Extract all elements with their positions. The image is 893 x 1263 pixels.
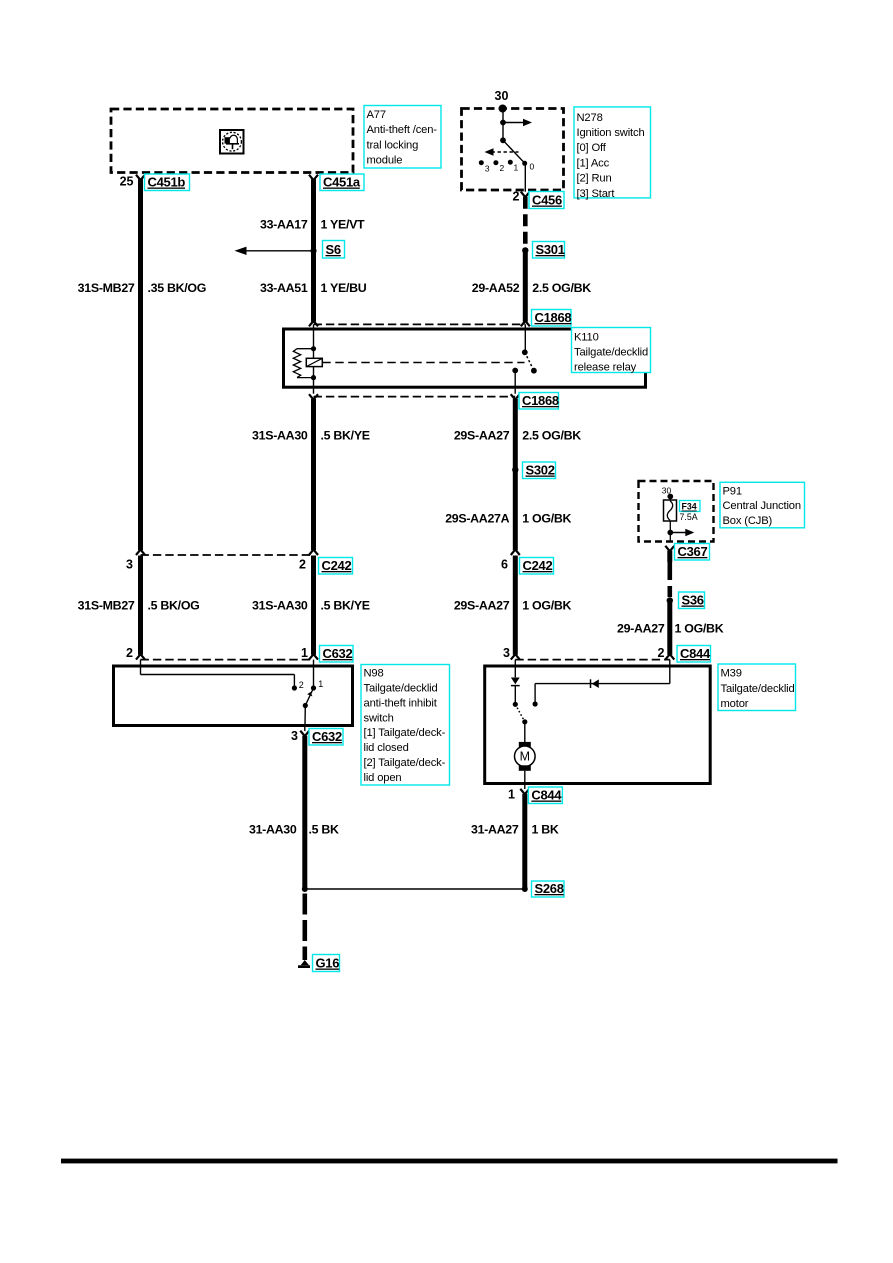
svg-text:33-AA17: 33-AA17 bbox=[260, 218, 308, 232]
svg-text:Tailgate/decklid: Tailgate/decklid bbox=[721, 683, 795, 695]
N98 contact 2 bbox=[292, 680, 304, 691]
connector C242 pin 3 symbol bbox=[126, 550, 145, 572]
svg-text:29-AA27: 29-AA27 bbox=[617, 621, 665, 635]
ignition switch movable contact bbox=[503, 140, 525, 163]
svg-text:K110: K110 bbox=[574, 331, 599, 343]
svg-text:Tailgate/decklid: Tailgate/decklid bbox=[364, 682, 438, 694]
splice S36 bbox=[667, 597, 673, 603]
svg-text:.5 BK/YE: .5 BK/YE bbox=[321, 598, 370, 612]
svg-text:lid closed: lid closed bbox=[364, 742, 409, 754]
relay K110 box bbox=[284, 329, 646, 387]
svg-text:.35 BK/OG: .35 BK/OG bbox=[148, 281, 207, 295]
svg-text:switch: switch bbox=[364, 712, 394, 724]
svg-text:31S-AA30: 31S-AA30 bbox=[252, 428, 308, 442]
N98 switch arm bbox=[303, 688, 314, 708]
splice S6 label bbox=[323, 241, 345, 259]
splice S302 label bbox=[523, 462, 556, 479]
connector C844 dashed line bbox=[515, 659, 670, 661]
wire label 29S-AA27 2.5 OG/BK bbox=[454, 428, 581, 442]
svg-text:.5 BK/OG: .5 BK/OG bbox=[148, 598, 200, 612]
svg-text:2.5 OG/BK: 2.5 OG/BK bbox=[522, 428, 581, 442]
svg-text:1 YE/VT: 1 YE/VT bbox=[321, 218, 366, 232]
pin 2 at C456 bbox=[513, 190, 520, 204]
N98 pin 1 wire bbox=[313, 660, 315, 688]
ground wire (dashed) to G16 bbox=[302, 894, 307, 961]
svg-text:2: 2 bbox=[513, 190, 520, 204]
connector C1868 top-left pin symbol bbox=[309, 321, 318, 326]
svg-text:P91: P91 bbox=[723, 485, 742, 497]
svg-text:1 OG/BK: 1 OG/BK bbox=[522, 598, 571, 612]
svg-text:30: 30 bbox=[495, 89, 509, 103]
M39 diode (pin 2 branch) bbox=[591, 679, 599, 688]
svg-text:C632: C632 bbox=[312, 729, 342, 744]
connector C1868 bottom label bbox=[519, 393, 559, 410]
svg-text:C632: C632 bbox=[323, 646, 353, 661]
motor M39 box bbox=[485, 666, 711, 784]
splice S36 label bbox=[679, 592, 705, 609]
svg-text:M39: M39 bbox=[721, 668, 742, 680]
M39 pin 3 wire bbox=[514, 660, 516, 678]
wire 31S-MB27 from C242 to C632 bbox=[138, 556, 143, 655]
svg-text:C456: C456 bbox=[532, 193, 562, 208]
connector C451a label bbox=[320, 174, 364, 191]
connector C844 label bbox=[677, 646, 711, 663]
relay coil to contact dashed link bbox=[322, 362, 524, 364]
connector C456 symbol bbox=[521, 192, 530, 197]
wire C367 to S36 (dashed section) bbox=[667, 551, 672, 597]
wire label 33-AA51 1 YE/BU bbox=[260, 281, 367, 295]
ground G16 label bbox=[313, 955, 340, 972]
connector C451b symbol bbox=[136, 175, 145, 180]
wire label 31-AA30 .5 BK bbox=[249, 822, 339, 836]
connector C632 pin 3 symbol bbox=[291, 729, 309, 743]
N98 label box bbox=[361, 665, 450, 786]
svg-text:N98: N98 bbox=[364, 667, 384, 679]
svg-text:tral locking: tral locking bbox=[367, 139, 419, 151]
splice S302 bbox=[512, 467, 518, 473]
wire label 29S-AA27 1 OG/BK bbox=[454, 598, 572, 612]
wire 31S-MB27 from C451b to C242 bbox=[138, 179, 143, 550]
footer rule bbox=[61, 1159, 838, 1164]
svg-text:[1] Acc: [1] Acc bbox=[577, 157, 610, 169]
fuse output node with branch arrow bbox=[667, 521, 694, 542]
M39 diode (pin 3 branch) bbox=[511, 678, 520, 705]
svg-text:3: 3 bbox=[503, 646, 510, 660]
svg-text:1 BK: 1 BK bbox=[532, 822, 559, 836]
relay coil resistor (parallel) bbox=[293, 346, 316, 380]
connector C844 pin 3 symbol bbox=[503, 646, 520, 660]
svg-text:Tailgate/decklid: Tailgate/decklid bbox=[574, 346, 648, 358]
wire label 33-AA17 1 YE/VT bbox=[260, 218, 365, 232]
svg-text:G16: G16 bbox=[316, 956, 340, 971]
wire 29S-AA27 from C242 to C844 bbox=[513, 556, 518, 655]
A77 lock/key symbol bbox=[220, 130, 244, 154]
svg-text:6: 6 bbox=[501, 558, 508, 572]
splice S6 with branch arrow bbox=[235, 247, 317, 255]
splice S268 label bbox=[532, 881, 565, 897]
svg-text:C451a: C451a bbox=[323, 175, 361, 190]
pin 25 at C451b bbox=[120, 175, 134, 189]
svg-text:1 YE/BU: 1 YE/BU bbox=[321, 281, 367, 295]
svg-text:S268: S268 bbox=[535, 881, 564, 896]
svg-text:3: 3 bbox=[126, 558, 133, 572]
relay contact output wire bbox=[514, 371, 516, 394]
svg-text:A77: A77 bbox=[367, 109, 386, 121]
switch N98 box bbox=[114, 666, 353, 726]
connector C242 pin 6 symbol bbox=[501, 550, 520, 572]
ignition switch wiring bbox=[500, 109, 506, 144]
svg-text:2.5 OG/BK: 2.5 OG/BK bbox=[532, 281, 591, 295]
svg-text:C1868: C1868 bbox=[535, 310, 572, 325]
svg-text:F34: F34 bbox=[682, 502, 697, 512]
connector C1868 top label bbox=[532, 310, 572, 327]
svg-text:2: 2 bbox=[299, 558, 306, 572]
svg-text:Central Junction: Central Junction bbox=[723, 500, 801, 512]
ignition switch dashed arrow bbox=[485, 148, 519, 156]
fuse F34 7.5A bbox=[664, 497, 677, 522]
svg-text:S301: S301 bbox=[536, 242, 565, 257]
svg-text:29S-AA27: 29S-AA27 bbox=[454, 598, 510, 612]
svg-text:M: M bbox=[520, 750, 530, 764]
svg-text:2: 2 bbox=[658, 646, 665, 660]
svg-text:S302: S302 bbox=[526, 463, 555, 478]
svg-text:S36: S36 bbox=[682, 593, 704, 608]
K110 label box bbox=[572, 328, 651, 374]
svg-text:C1868: C1868 bbox=[522, 393, 559, 408]
wire into relay coil bbox=[313, 324, 315, 358]
wire label 31S-MB27 .5 BK/OG bbox=[78, 598, 200, 612]
wire 33-AA17 / 33-AA51 from C451a to K110 C1868 bbox=[311, 179, 316, 322]
svg-text:C844: C844 bbox=[531, 788, 562, 803]
P91 label box bbox=[720, 482, 805, 528]
svg-text:C844: C844 bbox=[680, 646, 711, 661]
svg-text:1 OG/BK: 1 OG/BK bbox=[675, 621, 724, 635]
svg-text:3: 3 bbox=[485, 164, 490, 174]
M39 pin 2 wire bbox=[535, 660, 670, 704]
svg-text:[2] Tailgate/deck-: [2] Tailgate/deck- bbox=[364, 757, 446, 769]
svg-text:C242: C242 bbox=[523, 558, 553, 573]
svg-text:29-AA52: 29-AA52 bbox=[472, 281, 520, 295]
connector C632 pin 2 symbol bbox=[126, 646, 145, 660]
M39 pin 1 wire bbox=[524, 783, 526, 789]
svg-text:motor: motor bbox=[721, 698, 749, 710]
svg-text:.5 BK/YE: .5 BK/YE bbox=[321, 428, 370, 442]
svg-text:1 OG/BK: 1 OG/BK bbox=[522, 511, 571, 525]
connector C451b label bbox=[145, 174, 190, 191]
connector C456 label bbox=[529, 192, 564, 209]
connector C632 label bbox=[320, 646, 354, 663]
wire 31S-AA30 from C1868 to C242 bbox=[311, 399, 316, 550]
svg-text:31-AA27: 31-AA27 bbox=[471, 822, 519, 836]
svg-text:29S-AA27: 29S-AA27 bbox=[454, 428, 510, 442]
svg-text:N278: N278 bbox=[577, 112, 603, 124]
connector C1868 top-right pin symbol bbox=[521, 321, 530, 326]
M39 switch arm (dotted) bbox=[515, 704, 527, 724]
splice S268 junction line bbox=[302, 886, 528, 892]
terminal 30 node bbox=[499, 105, 507, 113]
fuse F34 label bbox=[680, 501, 701, 512]
wire from ignition position 0 to C456 bbox=[524, 163, 526, 191]
wire 31-AA30 from C632 to S268 bbox=[302, 736, 307, 889]
connector C1868 (bottom) dashed line bbox=[314, 396, 516, 398]
connector C1868 (top) dashed line bbox=[314, 323, 526, 325]
wire 29-AA52 from S301 to C1868 bbox=[523, 250, 528, 321]
wire label 31S-AA30 .5 BK/YE bbox=[252, 428, 370, 442]
svg-text:Anti-theft /cen-: Anti-theft /cen- bbox=[367, 124, 438, 136]
connector C632 dashed line bbox=[141, 659, 314, 661]
module A77 Anti-theft/central locking module (dashed box) bbox=[111, 109, 353, 173]
wire label 29-AA52 2.5 OG/BK bbox=[472, 281, 591, 295]
svg-text:.5 BK: .5 BK bbox=[309, 822, 340, 836]
svg-text:anti-theft inhibit: anti-theft inhibit bbox=[364, 697, 438, 709]
svg-text:lid open: lid open bbox=[364, 772, 402, 784]
connector C844 pin 1 symbol bbox=[508, 788, 529, 802]
svg-text:1: 1 bbox=[301, 646, 308, 660]
svg-text:29S-AA27A: 29S-AA27A bbox=[445, 511, 509, 525]
svg-text:31S-AA30: 31S-AA30 bbox=[252, 598, 308, 612]
svg-text:C242: C242 bbox=[322, 558, 352, 573]
splice S301 label bbox=[533, 242, 565, 259]
svg-text:Box (CJB): Box (CJB) bbox=[723, 515, 773, 527]
M39 switch contacts bbox=[513, 701, 538, 707]
svg-text:C451b: C451b bbox=[148, 175, 186, 190]
svg-text:2: 2 bbox=[126, 646, 133, 660]
svg-text:33-AA51: 33-AA51 bbox=[260, 281, 308, 295]
svg-text:1: 1 bbox=[318, 679, 323, 689]
ground G16 symbol bbox=[298, 960, 310, 968]
connector C632 (pin3) label bbox=[309, 729, 343, 746]
svg-text:1: 1 bbox=[514, 163, 519, 173]
terminal 30 label (CJB) bbox=[662, 486, 672, 496]
N278 label box bbox=[574, 107, 651, 200]
svg-text:[0] Off: [0] Off bbox=[577, 142, 607, 154]
connector C632 pin 1 symbol bbox=[301, 646, 318, 660]
wire label 29-AA27 1 OG/BK bbox=[617, 621, 724, 635]
svg-text:[2] Run: [2] Run bbox=[577, 173, 612, 185]
connector C1868 bottom-right pin symbol bbox=[511, 394, 520, 399]
N98 pin 3 wire bbox=[304, 706, 307, 732]
wire 29-AA27 from S36 to C844 bbox=[667, 601, 672, 655]
svg-text:[1] Tailgate/deck-: [1] Tailgate/deck- bbox=[364, 727, 446, 739]
N98 contact 1 bbox=[311, 679, 323, 691]
connector C844 pin 2 symbol bbox=[658, 646, 675, 660]
wire out of relay coil to C1868 bbox=[313, 367, 315, 394]
wire label 31S-AA30 .5 BK/YE bbox=[252, 598, 370, 612]
connector C1868 bottom-left pin symbol bbox=[309, 394, 318, 399]
splice S301 bbox=[522, 247, 528, 253]
ignition switch feed arrow bbox=[503, 119, 532, 127]
svg-text:31S-MB27: 31S-MB27 bbox=[78, 598, 135, 612]
svg-text:7.5A: 7.5A bbox=[680, 512, 698, 522]
terminal 30 label bbox=[495, 89, 509, 103]
connector C451a symbol bbox=[309, 175, 318, 180]
relay K110 contact (normally open) bbox=[512, 349, 537, 373]
wire C456 to S301 (dashed section) bbox=[523, 197, 528, 248]
wire 29S-AA27A from S302 to C242 bbox=[513, 470, 518, 550]
N98 pin 2 wire bbox=[141, 660, 295, 688]
svg-text:Ignition switch: Ignition switch bbox=[577, 127, 645, 139]
svg-text:2: 2 bbox=[299, 680, 304, 690]
connector C844 (pin1) label bbox=[528, 787, 562, 804]
wire 31S-AA30 from C242 to C632 bbox=[311, 556, 316, 655]
relay contact input wire bbox=[524, 324, 526, 352]
fuse feed node bbox=[667, 494, 673, 500]
svg-text:31S-MB27: 31S-MB27 bbox=[78, 281, 135, 295]
svg-text:S6: S6 bbox=[326, 242, 341, 257]
svg-text:31-AA30: 31-AA30 bbox=[249, 822, 297, 836]
wire label 31-AA27 1 BK bbox=[471, 822, 559, 836]
motor M39 symbol bbox=[515, 742, 536, 783]
connector C242 label (right) bbox=[520, 558, 554, 575]
ignition position contacts 3 2 1 0 bbox=[479, 160, 535, 174]
wire 29S-AA27 from C1868 to S302 bbox=[513, 399, 518, 470]
connector C367 symbol bbox=[665, 546, 674, 551]
M39 wire to motor bbox=[524, 722, 526, 742]
fuse box P91 CJB (dashed box) bbox=[639, 481, 714, 542]
connector C242 pin 2 symbol bbox=[299, 550, 318, 572]
A77 label box bbox=[364, 106, 441, 169]
wire 31-AA27 from C844 to S268 bbox=[522, 794, 527, 889]
connector C242 dashed line bbox=[141, 554, 314, 556]
wire label 29S-AA27A 1 OG/BK bbox=[445, 511, 571, 525]
relay K110 coil bbox=[306, 358, 322, 366]
svg-text:2: 2 bbox=[500, 163, 505, 173]
svg-text:C367: C367 bbox=[678, 544, 708, 559]
module N278 ignition switch (dashed box) bbox=[462, 109, 564, 191]
svg-text:1: 1 bbox=[508, 788, 515, 802]
svg-text:3: 3 bbox=[291, 729, 298, 743]
connector C242 label (left) bbox=[319, 558, 353, 575]
svg-text:module: module bbox=[367, 155, 403, 167]
svg-text:25: 25 bbox=[120, 175, 134, 189]
connector C367 label bbox=[675, 544, 710, 561]
svg-text:release relay: release relay bbox=[574, 362, 637, 374]
svg-text:[3] Start: [3] Start bbox=[577, 188, 616, 200]
M39 label box bbox=[718, 664, 796, 711]
wire label 31S-MB27 .35 BK/OG bbox=[78, 281, 206, 295]
svg-text:0: 0 bbox=[530, 162, 535, 172]
fuse rating 7.5A bbox=[680, 512, 698, 522]
